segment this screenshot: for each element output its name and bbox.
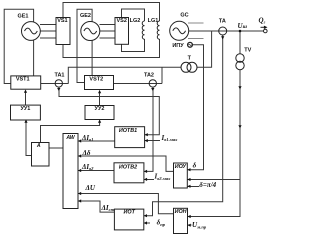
arrow TA2 into IOTV2 xyxy=(144,170,147,173)
wire ION setting stub Um-pr xyxy=(188,224,192,226)
wire VS1 to LG1 top link xyxy=(63,3,160,22)
svg-text:GE1: GE1 xyxy=(17,14,28,20)
arrow stub into IOU xyxy=(187,185,190,188)
control unit UU2 xyxy=(85,106,114,120)
svg-text:GE2: GE2 xyxy=(80,13,91,19)
arrow dIv1 into AW xyxy=(78,139,81,142)
svg-text:ИОТ: ИОТ xyxy=(124,209,136,215)
wire T right to GC bus xyxy=(197,31,212,67)
wire VS2 to LG2 top link xyxy=(122,9,145,21)
svg-text:ИОН: ИОН xyxy=(175,209,187,215)
wire TV secondary to IOU input xyxy=(187,179,240,181)
arrow dIst into AW xyxy=(78,199,81,202)
wire GE2 phase line bottom xyxy=(100,37,116,39)
arrow on TA1 secondary wire xyxy=(57,88,60,91)
svg-text:VS1: VS1 xyxy=(57,18,67,24)
svg-text:VST1: VST1 xyxy=(16,76,30,82)
wire GE2 phase line mid xyxy=(100,30,116,32)
wire TA2 secondary to IOTV2 xyxy=(144,87,153,171)
wire AW to A xyxy=(49,147,63,149)
svg-text:Uш: Uш xyxy=(238,22,248,30)
arrow TV into ION xyxy=(188,215,191,218)
wire IOT setting stub delta-pr xyxy=(144,222,150,224)
wire TV secondary down to ION xyxy=(188,70,241,217)
svg-text:A: A xyxy=(36,143,41,149)
wire UU2 to VST2 xyxy=(99,91,101,106)
wire IOTV2 output dIv2 to AW xyxy=(78,170,114,172)
arrow Q direction xyxy=(264,26,268,29)
svg-text:GC: GC xyxy=(180,12,188,18)
svg-text:ИОУ: ИОУ xyxy=(175,164,187,170)
arrow TA1 into IOTV1 xyxy=(145,133,148,136)
wire GE1 phase line top xyxy=(40,23,56,25)
arrow on TV wire down 2 xyxy=(238,125,241,128)
svg-text:LG2: LG2 xyxy=(130,18,141,24)
wire TA1 riser to T line xyxy=(68,67,181,83)
arrow on TA2 secondary wire xyxy=(151,88,154,91)
current transformer TA xyxy=(219,27,227,35)
current transformer TA2 xyxy=(149,80,156,87)
terminal circle bus end xyxy=(264,29,268,33)
arrow dU into AW xyxy=(78,192,81,195)
wire TA1 secondary to IOTV1 xyxy=(59,87,159,135)
arrow into UU1 xyxy=(24,120,27,123)
junction Ush tap xyxy=(239,30,242,33)
arrow stub into ION xyxy=(188,224,191,227)
measuring organ ION xyxy=(174,208,188,233)
wire IOTV2 setting stub Iv2max xyxy=(144,178,154,180)
wire TA secondary to IOT xyxy=(144,35,223,216)
angle sensor IPU xyxy=(188,42,193,47)
inductor LG1 xyxy=(157,21,159,39)
svg-text:TA2: TA2 xyxy=(144,72,154,78)
svg-text:AW: AW xyxy=(65,135,75,141)
svg-text:ИОТВ1: ИОТВ1 xyxy=(119,128,137,134)
measuring organ IOU xyxy=(174,163,188,188)
arrow into UU2 xyxy=(98,120,101,123)
arrow dIv2 into AW xyxy=(78,169,81,172)
measuring organ IOTV2 xyxy=(114,163,144,183)
svg-text:VST2: VST2 xyxy=(89,77,103,83)
wire GC main bus xyxy=(188,30,264,32)
svg-text:TA1: TA1 xyxy=(55,72,65,78)
wire IPU to IOU delta input xyxy=(187,45,203,170)
rectifier VS1 xyxy=(56,18,70,45)
wire GE2 excitation loop xyxy=(77,9,92,82)
voltage transformer TV xyxy=(236,54,244,62)
wire UU1 to VST1 xyxy=(25,91,27,106)
wire GE1 phase line bottom xyxy=(40,37,56,39)
arrow TV into IOU xyxy=(187,178,190,181)
wire GC phase stub bottom xyxy=(188,38,204,40)
svg-text:δ: δ xyxy=(193,161,197,169)
wire IOTV1 output dIv1 to AW xyxy=(78,140,115,142)
wire LG2 bottom to VS2 bottom xyxy=(122,39,145,52)
svg-text:VS2: VS2 xyxy=(116,18,126,24)
arrow stub into IOTV2 xyxy=(144,178,147,181)
arrow on TA wire down xyxy=(221,36,224,39)
generator GC xyxy=(170,21,189,40)
amplifier A xyxy=(32,143,50,167)
arrow stub into IOTV1 xyxy=(145,139,148,142)
wire IOT output dIst to AW xyxy=(78,201,114,212)
measuring organ IOTV1 xyxy=(115,127,145,148)
wire LG1 bottom to VS1 bottom xyxy=(63,39,160,58)
control unit UU1 xyxy=(11,105,41,120)
rectifier VS2 xyxy=(115,18,129,45)
arrow d-delta into AW xyxy=(78,154,81,157)
wire IOU output d-delta to AW xyxy=(78,156,174,171)
arrow TA into IOT xyxy=(144,214,147,217)
wire T line drop to TA2 bus xyxy=(161,67,163,83)
svg-text:TV: TV xyxy=(244,48,251,54)
arrow stub into IOT xyxy=(144,221,147,224)
arrow delta into IOU xyxy=(187,168,190,171)
svg-text:TA: TA xyxy=(219,18,226,24)
wire GE1 phase line mid xyxy=(40,30,56,32)
wire Q arrow shaft xyxy=(261,26,265,28)
wire A to UU2 xyxy=(41,121,100,143)
exciter VST2 xyxy=(85,76,114,90)
inductor LG2 xyxy=(142,21,144,39)
arrow into VST2 xyxy=(98,90,101,93)
wire GE2 phase line top xyxy=(100,23,116,25)
wire GE1 excitation loop xyxy=(4,9,33,83)
wire ION output dU to AW xyxy=(78,194,174,214)
svg-text:LG1: LG1 xyxy=(148,18,159,24)
generator GE2 xyxy=(81,22,100,41)
svg-text:ИПУ: ИПУ xyxy=(172,43,184,49)
measuring organ IOT xyxy=(114,209,143,230)
arrow on TV wire down 1 xyxy=(238,86,241,89)
wire Ush tap down to TV xyxy=(239,31,241,54)
svg-text:ИОТВ2: ИОТВ2 xyxy=(119,164,137,170)
wire excitation bus VST2 to TA2 xyxy=(114,83,163,85)
generator GE1 xyxy=(22,22,41,41)
svg-text:Δδ: Δδ xyxy=(82,149,91,157)
current transformer TA1 xyxy=(55,80,62,87)
exciter VST1 xyxy=(11,76,41,89)
svg-text:УУ2: УУ2 xyxy=(95,106,105,112)
svg-text:ΔU: ΔU xyxy=(85,184,96,192)
wire IOTV1 setting stub Iv1max xyxy=(145,140,160,142)
summator AW xyxy=(63,134,78,209)
wire excitation bus VST1 to TA1 to riser xyxy=(41,83,68,85)
wire GC phase stub top xyxy=(188,22,204,24)
transformer T xyxy=(181,62,191,72)
svg-text:УУ1: УУ1 xyxy=(20,106,30,112)
wire IOU setting stub delta=pi/4 xyxy=(187,185,199,187)
arrow into VST1 xyxy=(24,90,27,93)
wire A to UU1 xyxy=(26,121,32,156)
svg-text:δ=π/4: δ=π/4 xyxy=(199,181,216,189)
